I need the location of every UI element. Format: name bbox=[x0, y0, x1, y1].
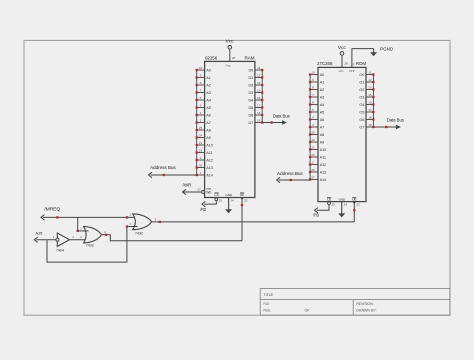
svg-text:Vcc: Vcc bbox=[338, 45, 347, 51]
svg-text:A5: A5 bbox=[206, 106, 210, 110]
svg-text:A8: A8 bbox=[320, 133, 324, 137]
svg-text:O4: O4 bbox=[359, 103, 364, 107]
svg-text:A2: A2 bbox=[320, 88, 324, 92]
svg-text:O7: O7 bbox=[359, 126, 364, 130]
svg-text:A12: A12 bbox=[320, 163, 327, 167]
svg-text:7432: 7432 bbox=[135, 231, 143, 235]
svg-text:A13: A13 bbox=[320, 171, 327, 175]
svg-text:19: 19 bbox=[257, 119, 261, 123]
svg-text:A1: A1 bbox=[206, 76, 210, 80]
svg-text:A4: A4 bbox=[320, 103, 324, 107]
svg-text:D6: D6 bbox=[248, 114, 253, 118]
svg-text:O2: O2 bbox=[359, 88, 364, 92]
svg-text:22: 22 bbox=[356, 203, 360, 207]
svg-text:A9: A9 bbox=[206, 136, 210, 140]
svg-text:16: 16 bbox=[257, 96, 261, 100]
svg-text:A15: A15 bbox=[35, 230, 43, 235]
svg-text:A14: A14 bbox=[206, 174, 213, 178]
svg-text:A10: A10 bbox=[206, 144, 213, 148]
svg-text:14: 14 bbox=[231, 198, 235, 202]
svg-text:A13: A13 bbox=[206, 166, 213, 170]
svg-text:D3: D3 bbox=[248, 91, 253, 95]
svg-text:D7: D7 bbox=[248, 121, 253, 125]
svg-text:Vcc: Vcc bbox=[226, 39, 235, 45]
svg-text:12: 12 bbox=[257, 74, 261, 78]
svg-text:/MREQ: /MREQ bbox=[44, 207, 60, 212]
svg-text:7432: 7432 bbox=[86, 244, 94, 248]
svg-text:Address Bus: Address Bus bbox=[150, 165, 176, 170]
svg-text:GND: GND bbox=[339, 197, 346, 201]
svg-text:24: 24 bbox=[199, 134, 203, 138]
svg-text:RAM: RAM bbox=[245, 55, 255, 61]
svg-text:13: 13 bbox=[368, 86, 372, 90]
svg-text:D0: D0 bbox=[248, 69, 253, 73]
svg-text:A9: A9 bbox=[320, 141, 324, 145]
svg-text:26: 26 bbox=[311, 168, 315, 172]
svg-text:A11: A11 bbox=[320, 156, 326, 160]
svg-text:24: 24 bbox=[311, 138, 315, 142]
svg-text:A0: A0 bbox=[206, 69, 210, 73]
svg-text:26: 26 bbox=[199, 164, 203, 168]
svg-text:Vcc: Vcc bbox=[226, 64, 231, 68]
svg-text:REVISION:: REVISION: bbox=[356, 302, 373, 306]
svg-text:A6: A6 bbox=[320, 118, 324, 122]
svg-text:Data Bus: Data Bus bbox=[387, 118, 404, 123]
svg-text:D4: D4 bbox=[248, 99, 253, 103]
svg-text:17: 17 bbox=[257, 104, 261, 108]
svg-text:A11: A11 bbox=[206, 151, 212, 155]
svg-text:OE: OE bbox=[240, 193, 244, 197]
svg-text:Data Bus: Data Bus bbox=[273, 113, 290, 118]
svg-text:A7: A7 bbox=[320, 126, 324, 130]
svg-text:A2: A2 bbox=[206, 84, 210, 88]
svg-text:20: 20 bbox=[219, 198, 223, 202]
svg-text:22: 22 bbox=[244, 198, 248, 202]
svg-text:13: 13 bbox=[257, 81, 261, 85]
svg-text:14: 14 bbox=[344, 203, 348, 207]
svg-text:/WR: /WR bbox=[183, 182, 192, 187]
svg-text:27: 27 bbox=[311, 176, 315, 180]
svg-text:21: 21 bbox=[199, 141, 203, 145]
svg-text:17: 17 bbox=[368, 108, 372, 112]
svg-text:O1: O1 bbox=[359, 81, 364, 85]
svg-text:O5: O5 bbox=[359, 111, 364, 115]
svg-text:28: 28 bbox=[232, 56, 236, 60]
svg-text:A7: A7 bbox=[206, 121, 210, 125]
svg-text:A10: A10 bbox=[320, 148, 327, 152]
svg-text:25: 25 bbox=[311, 131, 315, 135]
svg-text:GND: GND bbox=[225, 193, 232, 197]
svg-text:11: 11 bbox=[257, 66, 260, 70]
svg-text:TITLE: TITLE bbox=[264, 293, 274, 297]
svg-text:/RD: /RD bbox=[200, 207, 206, 212]
svg-text:FILE:: FILE: bbox=[264, 302, 270, 306]
svg-text:A12: A12 bbox=[206, 159, 213, 163]
svg-text:D2: D2 bbox=[248, 84, 253, 88]
svg-text:27C256: 27C256 bbox=[317, 61, 333, 67]
svg-text:A0: A0 bbox=[320, 73, 324, 77]
svg-text:Vcc: Vcc bbox=[339, 69, 344, 73]
svg-text:18: 18 bbox=[257, 111, 261, 115]
svg-text:A14: A14 bbox=[320, 178, 327, 182]
svg-text:DRAWN BY:: DRAWN BY: bbox=[356, 309, 376, 313]
svg-text:CS: CS bbox=[214, 193, 218, 197]
svg-text:A6: A6 bbox=[206, 114, 210, 118]
svg-text:25: 25 bbox=[199, 126, 203, 130]
svg-text:21: 21 bbox=[311, 146, 315, 150]
svg-text:O0: O0 bbox=[359, 73, 364, 77]
svg-text:OE: OE bbox=[352, 197, 356, 201]
svg-text:23: 23 bbox=[199, 149, 203, 153]
svg-text:62256: 62256 bbox=[205, 55, 218, 61]
svg-text:27: 27 bbox=[197, 188, 201, 192]
svg-text:O3: O3 bbox=[359, 96, 364, 100]
svg-text:A3: A3 bbox=[320, 96, 324, 100]
svg-text:A4: A4 bbox=[206, 99, 210, 103]
svg-text:23: 23 bbox=[311, 153, 315, 157]
svg-text:20: 20 bbox=[331, 203, 335, 207]
svg-text:A3: A3 bbox=[206, 91, 210, 95]
svg-text:10: 10 bbox=[311, 71, 315, 75]
svg-text:WE: WE bbox=[206, 190, 212, 194]
svg-text:VPP: VPP bbox=[349, 69, 355, 73]
svg-text:D5: D5 bbox=[248, 106, 253, 110]
svg-text:ROM: ROM bbox=[356, 61, 366, 67]
svg-text:Address Bus: Address Bus bbox=[277, 171, 303, 176]
svg-text:11: 11 bbox=[368, 71, 371, 75]
svg-text:28: 28 bbox=[344, 62, 348, 66]
svg-text:O6: O6 bbox=[359, 118, 364, 122]
svg-text:16: 16 bbox=[368, 101, 372, 105]
svg-text:A1: A1 bbox=[320, 81, 324, 85]
svg-text:A8: A8 bbox=[206, 129, 210, 133]
svg-text:D1: D1 bbox=[248, 76, 253, 80]
svg-text:18: 18 bbox=[368, 116, 372, 120]
svg-text:PAGE: PAGE bbox=[264, 309, 271, 313]
svg-text:/RD: /RD bbox=[313, 212, 319, 217]
svg-text:10: 10 bbox=[199, 66, 203, 70]
svg-text:19: 19 bbox=[368, 123, 372, 127]
svg-text:PGND: PGND bbox=[380, 46, 394, 51]
svg-text:15: 15 bbox=[257, 89, 261, 93]
svg-text:7404: 7404 bbox=[56, 248, 64, 252]
svg-text:12: 12 bbox=[368, 78, 372, 82]
svg-text:OF: OF bbox=[305, 309, 311, 313]
svg-text:15: 15 bbox=[368, 93, 372, 97]
svg-text:A5: A5 bbox=[320, 111, 324, 115]
svg-text:CE: CE bbox=[327, 197, 331, 201]
